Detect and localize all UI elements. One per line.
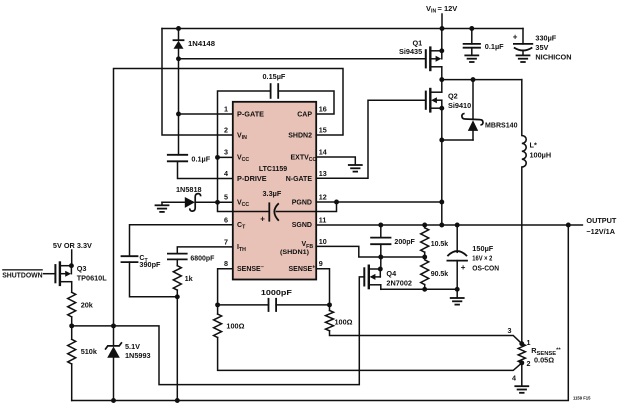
svg-text:35V: 35V	[535, 43, 548, 52]
labels LTC1159 pins	[237, 109, 317, 273]
svg-text:330µF: 330µF	[535, 34, 556, 43]
diode D2 1N5818	[162, 194, 233, 212]
label 1k	[185, 274, 194, 283]
svg-text:5: 5	[224, 193, 228, 202]
svg-text:200pF: 200pF	[394, 237, 415, 246]
svg-text:+: +	[461, 263, 466, 272]
junction switch node	[439, 77, 444, 82]
wire CT bottom	[130, 262, 177, 297]
capacitor 1000pF	[218, 299, 330, 311]
svg-text:150µF: 150µF	[472, 244, 494, 253]
label Q3	[77, 264, 108, 283]
svg-text:16: 16	[319, 105, 327, 114]
svg-text:SENSE−: SENSE−	[237, 264, 264, 273]
svg-text:OUTPUT: OUTPUT	[586, 216, 617, 225]
svg-text:SHDN2: SHDN2	[288, 132, 312, 139]
svg-text:Q1: Q1	[413, 38, 423, 47]
svg-text:OS-CON: OS-CON	[472, 264, 499, 273]
capacitor 6800pF	[168, 254, 187, 260]
label 5.1V 1N5993	[125, 342, 151, 360]
capacitor CT 390pF	[122, 256, 138, 262]
junction SENSE+/1000pF	[327, 302, 332, 307]
capacitor 0.1uF input	[464, 26, 480, 55]
junction VCC node pin3	[215, 155, 220, 160]
wire output stub	[568, 224, 582, 226]
ground 150uF	[451, 289, 464, 304]
svg-text:6: 6	[224, 215, 228, 224]
capacitor 150uF OS-CON	[447, 223, 467, 290]
wire 0.15uF left to VCC node	[218, 91, 271, 202]
wire 90.5k-150uF bottom line	[381, 288, 457, 290]
label 510k	[81, 347, 98, 356]
svg-text:20k: 20k	[81, 301, 94, 310]
junction pin1 node	[176, 112, 181, 117]
svg-text:+: +	[260, 214, 265, 223]
resistor RSENSE 0.05ohm	[518, 344, 525, 363]
label CT 390pF	[139, 255, 161, 269]
wire kelvin4	[218, 338, 522, 371]
capacitor 200pF	[371, 223, 390, 257]
wire pin1 P-GATE	[179, 113, 233, 115]
svg-text:0.05Ω: 0.05Ω	[534, 356, 554, 365]
inductor L 100uH	[522, 80, 526, 344]
wire Q1 gate line	[179, 58, 426, 60]
svg-text:1N5818: 1N5818	[176, 185, 202, 194]
label 1N5818	[176, 185, 202, 194]
svg-text:MBRS140: MBRS140	[485, 120, 518, 129]
transistor Q2 Si9410	[426, 89, 444, 111]
junction output	[566, 223, 571, 228]
resistor 90.5k	[421, 260, 429, 290]
svg-text:2N7002: 2N7002	[386, 279, 412, 288]
svg-text:3.3µF: 3.3µF	[263, 189, 282, 198]
junction 150uF bottom	[455, 287, 460, 292]
svg-text:10.5k: 10.5k	[431, 239, 449, 248]
svg-text:100Ω: 100Ω	[226, 322, 244, 331]
resistor 10.5k	[421, 223, 429, 257]
resistor 100ohm left	[214, 314, 222, 338]
wire rail to pin2 VIN	[162, 29, 233, 136]
svg-text:0.1µF: 0.1µF	[485, 42, 504, 51]
svg-text:13: 13	[319, 169, 327, 178]
svg-text:90.5k: 90.5k	[431, 269, 449, 278]
svg-text:+: +	[513, 32, 518, 41]
svg-text:100Ω: 100Ω	[335, 318, 353, 327]
wire output down and bottom rail	[72, 225, 569, 401]
label 200pF	[394, 237, 415, 246]
wire SHUTDOWN to Q3 gate	[44, 273, 56, 275]
wire P-GATE node vertical	[178, 59, 180, 155]
pin numbers LTC1159	[224, 105, 327, 269]
label 0.1uF input	[485, 42, 504, 51]
svg-text:6800pF: 6800pF	[190, 253, 215, 262]
svg-text:CAP: CAP	[297, 111, 312, 118]
ground EXTVCC	[349, 165, 362, 172]
junction Q2 vertical/SGND	[439, 223, 444, 228]
svg-text:Q2: Q2	[448, 91, 458, 100]
label 10.5k	[431, 239, 449, 248]
junction RSENSE pin1	[519, 341, 524, 346]
junction Q2 source/MBRS line	[439, 138, 444, 143]
svg-text:Si9410: Si9410	[448, 101, 471, 110]
diode Z1 1N5993 5.1V	[106, 326, 122, 401]
svg-text:3: 3	[224, 148, 228, 157]
wire Q4 drain up	[380, 257, 382, 269]
label 90.5k	[431, 269, 449, 278]
svg-text:12: 12	[319, 193, 327, 202]
junction 1k/CT	[175, 294, 180, 299]
svg-text:1N4148: 1N4148	[188, 39, 215, 48]
svg-text:510k: 510k	[81, 347, 98, 356]
junction VFB/200pF	[378, 255, 383, 260]
wire kelvin3	[330, 331, 522, 344]
svg-text:PGND: PGND	[292, 199, 312, 206]
svg-text:TP0610L: TP0610L	[77, 274, 108, 283]
svg-text:390pF: 390pF	[139, 260, 161, 269]
label 1000pF	[261, 288, 293, 297]
node SGND rail	[316, 224, 568, 226]
wire 0.1uF to pin4 P-DRIVE	[178, 161, 233, 178]
wire pin3 VCC stub	[218, 156, 233, 158]
svg-text:P-DRIVE: P-DRIVE	[237, 174, 267, 183]
svg-text:4: 4	[224, 169, 228, 178]
svg-text:Q4: Q4	[386, 269, 397, 278]
wire MBRS anode to Q2 source	[442, 139, 473, 141]
wire pin6 CT net	[130, 225, 233, 256]
label 100ohm right	[335, 318, 353, 327]
junction node A / zener	[111, 323, 116, 328]
svg-text:L*: L*	[530, 141, 537, 150]
wire pin12 PGND	[316, 201, 442, 203]
resistor 100ohm right	[326, 311, 334, 331]
svg-text:100µH: 100µH	[530, 150, 552, 159]
junction MBRS top	[471, 77, 476, 82]
junction rail/D1	[176, 26, 181, 31]
svg-text:N-GATE: N-GATE	[286, 176, 313, 183]
wire switch node horizontal	[442, 79, 522, 81]
junction VFB/10.5k	[422, 255, 427, 260]
label RSENSE 0.05ohm	[531, 346, 561, 364]
svg-text:= 12V: = 12V	[438, 4, 458, 13]
label 330uF 35V NICHICON	[535, 34, 571, 62]
wire 5V to Q3	[71, 250, 73, 266]
label kelvin 4	[512, 373, 516, 382]
svg-text:1000pF: 1000pF	[261, 288, 293, 297]
resistor 1k	[173, 259, 181, 290]
svg-text:7: 7	[224, 237, 228, 246]
op-amp U1 LTC1159 body	[233, 102, 316, 280]
label 0.15uF	[263, 72, 286, 81]
svg-text:5V OR 3.3V: 5V OR 3.3V	[53, 242, 92, 250]
ground RSENSE	[515, 386, 528, 393]
node VIN rail (+12V)	[162, 28, 523, 30]
svg-text:Si9435: Si9435	[399, 47, 422, 56]
capacitor 330uF NICHICON	[514, 29, 532, 56]
svg-text:10: 10	[319, 237, 327, 246]
junction pin12/3.3uF	[334, 200, 339, 205]
svg-text:1: 1	[527, 338, 531, 347]
wire pin8 SENSE- down	[218, 269, 233, 314]
junction bottom rail/zener	[111, 398, 116, 403]
wire pin13 N-GATE to Q2 gate	[316, 100, 426, 178]
capacitor 0.15uF	[271, 84, 279, 98]
svg-text:0.1µF: 0.1µF	[191, 154, 210, 163]
wire 1k to bottom rail	[176, 290, 178, 400]
svg-text:1: 1	[224, 105, 228, 114]
junction PGND line	[439, 200, 444, 205]
svg-text:1159 F15: 1159 F15	[573, 395, 591, 400]
svg-text:P-GATE: P-GATE	[237, 109, 264, 118]
transistor Q3 TP0610L	[55, 263, 73, 285]
label 1159 F15	[573, 395, 591, 400]
label 150uF 16Vx2 OS-CON	[472, 244, 499, 273]
wire Q1 drain to switch node	[441, 67, 443, 80]
svg-text:1N5993: 1N5993	[125, 351, 151, 360]
label RSENSE pins	[527, 338, 531, 368]
transistor Q1 Si9435	[426, 48, 444, 70]
junction node A	[69, 323, 74, 328]
wire Q4 source down	[380, 285, 382, 290]
wire switch node to Q2 drain	[441, 80, 443, 93]
wire pin9 SENSE+ down	[316, 269, 329, 311]
label VIN = 12V	[426, 4, 457, 15]
wire pin15 SHDN2 net	[114, 69, 344, 326]
label 100ohm left	[226, 322, 244, 331]
wire Q2 source down	[441, 108, 443, 225]
label 5V OR 3.3V	[53, 242, 92, 250]
svg-text:3: 3	[508, 326, 512, 335]
svg-text:8: 8	[224, 259, 228, 268]
label 20k	[81, 301, 94, 310]
svg-text:15: 15	[319, 126, 327, 135]
junction bottom rail/1k	[175, 398, 180, 403]
label Q2	[448, 91, 471, 110]
wire VIN stub	[441, 14, 443, 29]
ground 0.1uF input	[465, 55, 478, 62]
svg-text:VIN: VIN	[426, 4, 436, 15]
wire Q4 gate net (node A)	[72, 277, 365, 385]
label Q1	[399, 38, 422, 56]
svg-text:SHUTDOWN: SHUTDOWN	[2, 273, 42, 280]
svg-text:0.15µF: 0.15µF	[263, 72, 286, 81]
wire 0.15uF right to pin16 CAP	[278, 91, 334, 114]
junction D1/P-GATE node	[176, 56, 181, 61]
svg-text:(SHDN1): (SHDN1)	[280, 249, 309, 256]
svg-text:LTC1159: LTC1159	[259, 166, 287, 173]
svg-text:SGND: SGND	[292, 222, 312, 229]
wire pin10 VFB	[316, 246, 425, 257]
label Q4	[386, 269, 412, 288]
label 6800pF	[190, 253, 215, 262]
svg-text:2: 2	[527, 359, 531, 368]
svg-text:4: 4	[512, 373, 516, 382]
label kelvin 3	[508, 326, 512, 335]
svg-text:14: 14	[319, 148, 327, 157]
junction RSENSE pin2	[519, 360, 524, 365]
capacitor 3.3uF internal	[218, 189, 337, 223]
svg-text:−12V/1A: −12V/1A	[586, 227, 615, 236]
svg-text:2: 2	[224, 126, 228, 135]
capacitor 0.1uF (P-DRIVE)	[168, 155, 187, 162]
ground 330uF	[517, 55, 530, 62]
label + 150uF	[461, 263, 466, 272]
svg-text:9: 9	[319, 259, 323, 268]
diode D1 1N4148	[174, 29, 184, 59]
wire pin14 EXTVCC to ground	[316, 157, 355, 165]
diode D3 MBRS140	[462, 80, 483, 140]
resistor 510k	[68, 326, 76, 401]
label 0.1uF left	[191, 154, 210, 163]
label 1N4148	[188, 39, 215, 48]
label OUTPUT -12V/1A	[586, 216, 617, 236]
svg-text:Q3: Q3	[77, 264, 87, 273]
svg-text:SENSE+: SENSE+	[289, 264, 316, 273]
label MBRS140	[485, 120, 518, 129]
label L* 100uH	[530, 141, 552, 160]
junction VIN/rail	[440, 26, 445, 31]
wire RSENSE to ground	[521, 363, 523, 386]
svg-text:11: 11	[319, 215, 327, 224]
wire pin7 ITH	[177, 247, 233, 254]
ground under 1N5818	[156, 202, 169, 212]
junction VCC node pin5	[215, 200, 220, 205]
label SHUTDOWN	[2, 269, 43, 280]
junction SENSE-/1000pF	[215, 302, 220, 307]
wire rail to Q1	[441, 29, 443, 51]
svg-text:NICHICON: NICHICON	[535, 53, 571, 62]
junction 90.5k bottom	[422, 287, 427, 292]
transistor Q4 2N7002	[364, 266, 382, 288]
label + 330uF	[513, 32, 518, 41]
svg-text:16V × 2: 16V × 2	[472, 253, 492, 262]
svg-text:1k: 1k	[185, 274, 194, 283]
resistor 20k	[68, 282, 76, 326]
